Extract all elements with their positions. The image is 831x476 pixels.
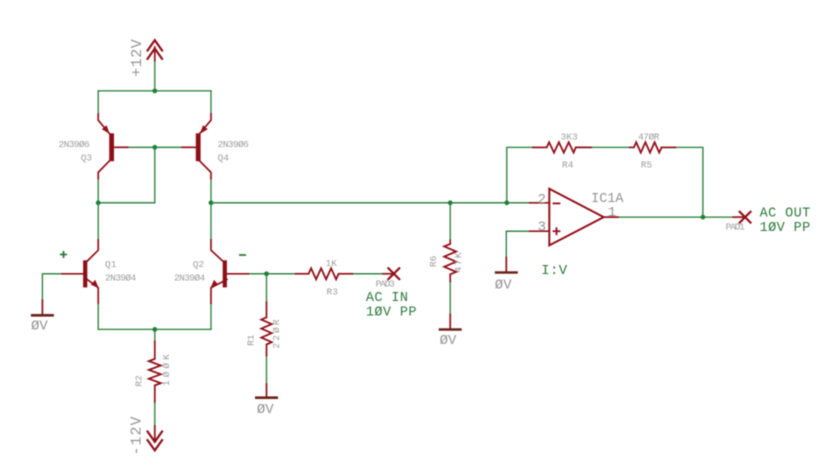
- svg-text:3K3: 3K3: [561, 131, 578, 142]
- svg-text:2N39Ø4: 2N39Ø4: [174, 273, 206, 284]
- svg-text:PAD1: PAD1: [726, 222, 746, 233]
- svg-text:47K: 47K: [453, 251, 464, 272]
- svg-text:ØV: ØV: [440, 333, 457, 349]
- svg-text:Q4: Q4: [218, 153, 230, 164]
- svg-text:R1: R1: [246, 334, 257, 346]
- svg-text:-12V: -12V: [128, 415, 145, 455]
- svg-text:ØV: ØV: [31, 318, 48, 334]
- svg-text:PAD3: PAD3: [376, 279, 396, 290]
- svg-text:Q3: Q3: [81, 153, 93, 164]
- svg-text:IC1A: IC1A: [591, 192, 624, 207]
- svg-text:2: 2: [538, 192, 546, 208]
- svg-text:2N39Ø6: 2N39Ø6: [59, 139, 91, 150]
- svg-text:1K: 1K: [326, 258, 338, 269]
- svg-text:+12V: +12V: [129, 39, 146, 77]
- svg-text:1: 1: [608, 205, 616, 221]
- svg-text:1ØV PP: 1ØV PP: [366, 306, 417, 321]
- svg-text:2N39Ø4: 2N39Ø4: [105, 273, 137, 284]
- svg-text:Q1: Q1: [105, 259, 117, 270]
- svg-text:1ØØK: 1ØØK: [161, 351, 172, 386]
- svg-text:ØV: ØV: [257, 402, 274, 418]
- svg-text:I:V: I:V: [541, 263, 568, 279]
- svg-text:R5: R5: [641, 160, 653, 171]
- svg-text:Q2: Q2: [193, 259, 205, 270]
- svg-text:2N39Ø6: 2N39Ø6: [218, 139, 250, 150]
- svg-text:R6: R6: [428, 255, 439, 267]
- svg-text:R3: R3: [327, 287, 339, 298]
- svg-text:R2: R2: [133, 375, 144, 387]
- svg-text:AC IN: AC IN: [366, 291, 409, 306]
- svg-text:22ØR: 22ØR: [271, 317, 282, 348]
- svg-text:1ØV PP: 1ØV PP: [760, 221, 811, 236]
- svg-text:3: 3: [538, 219, 546, 235]
- svg-text:AC OUT: AC OUT: [760, 206, 811, 221]
- svg-text:R4: R4: [562, 160, 574, 171]
- svg-text:47ØR: 47ØR: [638, 131, 660, 142]
- svg-text:ØV: ØV: [495, 278, 512, 294]
